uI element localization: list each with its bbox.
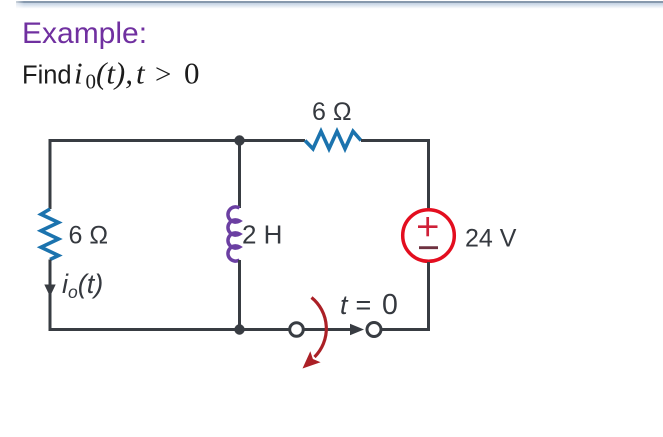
- switch arm arrowhead: [350, 324, 364, 335]
- switch arm wire: [303, 328, 352, 331]
- top border fade: [16, 3, 663, 9]
- wire left vertical lower: [49, 260, 52, 332]
- inductor L 2H: [228, 207, 240, 261]
- red arrowhead: [303, 351, 321, 368]
- svg-text:6 Ω: 6 Ω: [69, 222, 109, 250]
- switch terminal circle right: [367, 323, 381, 337]
- wire bottom-left horizontal: [49, 328, 290, 331]
- wire top-right horizontal: [361, 139, 430, 142]
- wire bottom-right horizontal: [381, 328, 430, 331]
- svg-text:6 Ω: 6 Ω: [312, 98, 352, 126]
- wire middle vertical lower: [238, 260, 241, 330]
- switch terminal circle left: [290, 323, 304, 337]
- svg-text:2 H: 2 H: [242, 220, 282, 250]
- junction node bottom: [234, 324, 244, 334]
- svg-text:24 V: 24 V: [465, 225, 517, 253]
- junction node top: [234, 135, 244, 145]
- current arrow io: [44, 285, 55, 297]
- minus sign: [419, 246, 438, 249]
- wire left vertical upper: [49, 139, 52, 209]
- svg-text:Example:: Example:: [22, 17, 147, 50]
- top border line: [16, 1, 663, 3]
- wire right vertical upper: [427, 139, 430, 209]
- plus sign: [418, 225, 438, 228]
- resistor R top 6ohm zigzag: [305, 131, 361, 149]
- resistor R left 6ohm zigzag: [41, 209, 59, 260]
- wire top-left horizontal: [49, 139, 306, 142]
- wire middle vertical upper: [238, 141, 241, 209]
- switch motion red arc arrow: [312, 298, 327, 358]
- voltage source V1 circle: [403, 210, 455, 262]
- wire right vertical lower: [427, 262, 430, 331]
